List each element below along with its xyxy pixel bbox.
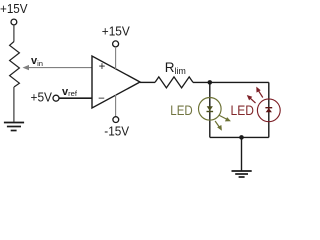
wire: [241, 137, 243, 170]
wire: [268, 82, 270, 137]
LED D1 (green): [199, 98, 231, 131]
wire v_in with wiper arrow: [23, 65, 93, 70]
wire: [140, 81, 155, 83]
terminal +5V: [53, 95, 59, 101]
svg-text:+15V: +15V: [102, 24, 130, 39]
wire: [209, 82, 211, 137]
wire: [193, 81, 269, 83]
svg-text:vin: vin: [31, 55, 43, 68]
wire: [115, 47, 117, 69]
svg-text:LED: LED: [231, 102, 254, 118]
wire: [13, 87, 15, 122]
wire: [13, 25, 15, 42]
LED D2 (red): [247, 87, 280, 122]
op-amp U1: [92, 56, 140, 108]
wire: [115, 95, 117, 117]
junction node: [208, 80, 213, 85]
wire: [210, 136, 269, 138]
terminal +15V (op-amp): [113, 41, 119, 47]
ground (right): [232, 171, 252, 177]
ground (left): [4, 123, 24, 131]
svg-text:vref: vref: [62, 86, 78, 98]
potentiometer resistor R1: [10, 42, 20, 88]
svg-text:+: +: [99, 61, 106, 73]
junction node: [239, 135, 244, 140]
svg-text:−: −: [98, 93, 105, 105]
wire v_ref: [59, 97, 92, 99]
terminal +15V (left): [11, 19, 17, 25]
resistor Rlim: [155, 77, 193, 88]
terminal -15V: [113, 117, 119, 123]
svg-text:+5V: +5V: [31, 90, 53, 105]
svg-text:LED: LED: [170, 102, 192, 118]
svg-text:-15V: -15V: [104, 124, 129, 139]
svg-text:+15V: +15V: [0, 1, 28, 16]
svg-text:Rlim: Rlim: [165, 60, 186, 76]
